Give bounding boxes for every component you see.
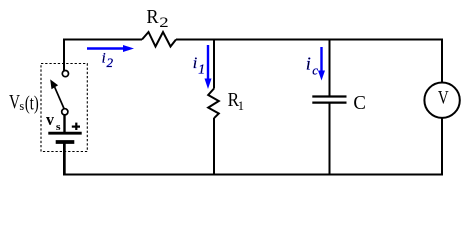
svg-text:1: 1 — [198, 61, 205, 76]
svg-text:C: C — [353, 92, 366, 114]
svg-text:v: v — [46, 110, 54, 129]
svg-text:i: i — [102, 51, 106, 67]
wire switch to battery — [63, 115, 65, 134]
voltmeter V — [424, 83, 459, 118]
wire right side upper (to voltmeter) — [441, 39, 443, 84]
wire C branch lower — [329, 103, 331, 175]
wire R1 branch lower — [213, 118, 215, 175]
wire top-left corner from switch to R2 — [64, 40, 142, 72]
switch blade with arrow — [50, 79, 64, 109]
wire R1 branch upper — [213, 40, 215, 89]
svg-text:2: 2 — [107, 55, 114, 70]
wire battery to bottom — [63, 143, 65, 174]
current arrow i1 — [205, 45, 212, 89]
svg-text:(t): (t) — [25, 94, 39, 115]
resistor R2 — [142, 32, 176, 47]
battery vs positive plate — [48, 132, 81, 135]
wire top from R2 to top-right corner — [176, 39, 442, 41]
wire C branch upper — [329, 40, 331, 97]
svg-text:2: 2 — [159, 15, 168, 31]
svg-text:s: s — [56, 122, 61, 133]
source enclosure (dashed box) — [41, 64, 87, 152]
svg-text:i: i — [193, 55, 197, 72]
capacitor C — [312, 97, 346, 103]
svg-text:1: 1 — [238, 99, 244, 113]
svg-text:R: R — [146, 6, 159, 28]
switch terminal (top) — [62, 71, 68, 77]
svg-text:s: s — [19, 98, 24, 113]
svg-text:i: i — [306, 53, 311, 73]
svg-text:c: c — [312, 63, 318, 78]
current arrow ic — [318, 47, 325, 81]
wire right side lower, bottom wire, left lower riser — [64, 118, 442, 175]
battery vs negative plate — [56, 140, 75, 144]
svg-text:V: V — [438, 89, 449, 109]
resistor R1 — [208, 89, 219, 119]
svg-text:V: V — [9, 92, 20, 113]
polarity + of battery — [72, 123, 80, 130]
switch terminal (bottom) — [62, 109, 68, 115]
current arrow i2 — [87, 45, 134, 52]
